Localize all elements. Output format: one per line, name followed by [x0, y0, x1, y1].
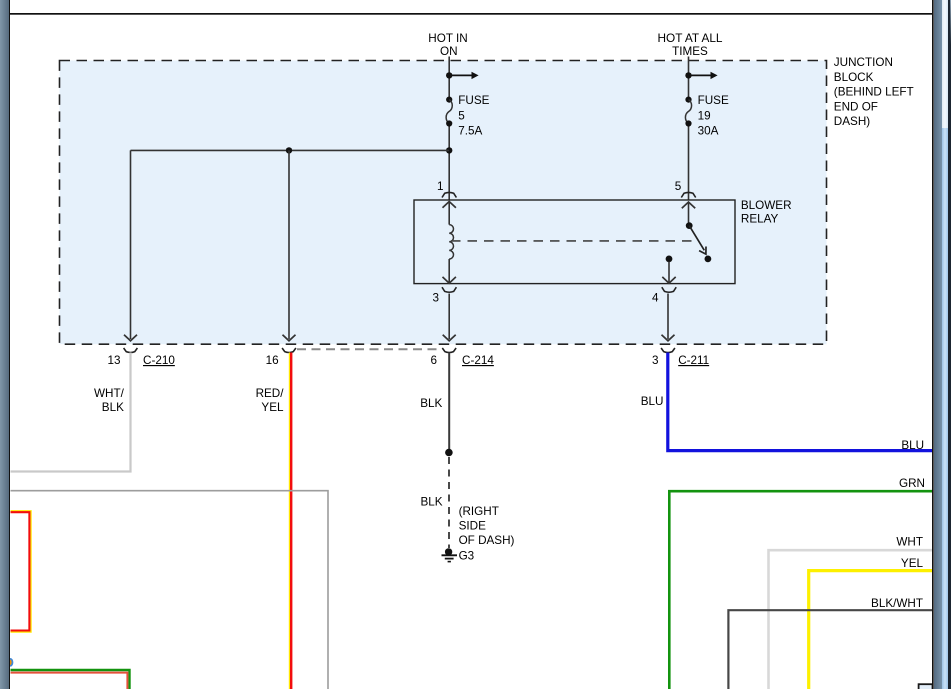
connector cap pin 5: [681, 192, 695, 197]
svg-text:FUSE: FUSE: [698, 94, 729, 107]
svg-text:BLK: BLK: [102, 401, 124, 414]
ground G3: [445, 548, 452, 555]
svg-text:3: 3: [652, 354, 659, 367]
svg-text:13: 13: [107, 354, 120, 367]
node: BLK junction dot: [445, 449, 453, 457]
junction block shaded area: [60, 61, 827, 345]
wire: RED/YEL loop at bottom left (red): [11, 512, 30, 630]
svg-text:WHT: WHT: [896, 535, 923, 548]
left window bar: [0, 0, 9, 689]
window frame: left black line: [9, 0, 11, 689]
connector 16 cup: [282, 348, 296, 353]
component box (gray, partially visible): [11, 491, 329, 689]
svg-text:RELAY: RELAY: [741, 213, 779, 226]
wire: RED bottom left: [11, 673, 128, 689]
svg-text:6: 6: [430, 354, 437, 367]
svg-text:(BEHIND LEFT: (BEHIND LEFT: [834, 86, 914, 99]
svg-text:4: 4: [652, 292, 659, 305]
wire: BLK dashed to ground: [448, 457, 450, 548]
svg-text:16: 16: [266, 354, 279, 367]
connector cap pin 1: [442, 192, 456, 197]
svg-text:YEL: YEL: [901, 557, 924, 570]
wire: BLU: [668, 353, 933, 451]
connector C-214 cup: [442, 348, 456, 353]
right dark edge top light patch: [950, 0, 951, 45]
svg-text:BLK: BLK: [420, 397, 442, 410]
svg-text:GRN: GRN: [899, 477, 925, 490]
svg-text:C-211: C-211: [678, 354, 709, 367]
gray dashed segment between connector 16 and 6: [297, 348, 440, 350]
wire: GRN bottom left: [11, 670, 130, 689]
blower relay box: [414, 200, 735, 284]
component box bottom right corner: [919, 684, 933, 689]
node: junction dot at (289,150): [286, 147, 292, 153]
svg-text:3: 3: [432, 292, 439, 305]
svg-text:HOT IN: HOT IN: [428, 32, 467, 45]
svg-text:5: 5: [675, 180, 682, 193]
svg-text:BLK/WHT: BLK/WHT: [871, 597, 923, 610]
wire: branch to connector 13: [130, 150, 132, 339]
connector C-210 cup: [124, 348, 138, 353]
wire: pin3 to junction bottom: [448, 294, 450, 340]
connector C-211 cup: [661, 348, 675, 353]
connector cup pin 3: [442, 287, 456, 292]
svg-text:FUSE: FUSE: [458, 94, 489, 107]
svg-text:1: 1: [437, 180, 444, 193]
right window bar: [934, 0, 942, 689]
wire: horizontal distribution wire y=150: [131, 149, 450, 151]
window frame: inner top black line: [10, 13, 933, 15]
relay switch common (pin5 side): [688, 202, 690, 223]
svg-text:BLOCK: BLOCK: [834, 71, 874, 84]
wire: RED/YEL red: [290, 353, 292, 689]
wire: BLK solid: [448, 353, 450, 451]
wire: pin4 down inside relay: [668, 262, 670, 284]
relay switch arm: [689, 226, 704, 251]
fuse F19 symbol: [685, 97, 691, 103]
wire: RED/YEL loop at bottom left (yellow tracer): [11, 511, 32, 632]
svg-text:YEL: YEL: [261, 401, 284, 414]
wire: arrow right from fuse5 top: [449, 74, 472, 76]
svg-text:JUNCTION: JUNCTION: [834, 56, 893, 69]
svg-text:WHT/: WHT/: [94, 387, 125, 400]
svg-text:OF DASH): OF DASH): [459, 534, 515, 547]
svg-text:ON: ON: [440, 45, 458, 58]
dashed mechanical link: [451, 240, 695, 242]
svg-text:RED/: RED/: [256, 387, 285, 400]
wire: YEL: [809, 571, 933, 689]
connector cup pin 4: [662, 287, 676, 292]
relay coil K1: [448, 202, 450, 225]
svg-text:BLU: BLU: [901, 439, 924, 452]
svg-text:BLOWER: BLOWER: [741, 199, 792, 212]
wire: WHT: [769, 550, 933, 689]
wire: pin4 to junction bottom: [667, 294, 669, 340]
svg-text:C-210: C-210: [143, 354, 175, 367]
grommet symbol at left edge: [8, 659, 12, 666]
relay contact dot (open): [705, 256, 712, 263]
fuse F5 symbol: [446, 97, 452, 103]
right light strip upper white part: [942, 0, 948, 128]
svg-text:G3: G3: [459, 550, 475, 563]
right light strip: [942, 0, 948, 689]
svg-text:BLK: BLK: [421, 496, 443, 509]
svg-text:HOT AT ALL: HOT AT ALL: [658, 32, 723, 45]
node: fuse5 top junction dot: [446, 72, 452, 78]
node: fuse19 top junction dot: [685, 72, 691, 78]
wire: branch to connector 16: [288, 150, 290, 339]
svg-text:TIMES: TIMES: [672, 45, 708, 58]
wire: arrow right from fuse19 top: [689, 74, 712, 76]
relay contact dot pin4: [666, 256, 673, 263]
wire: WHT/BLK: [11, 353, 131, 472]
svg-text:SIDE: SIDE: [459, 520, 486, 533]
svg-text:5: 5: [458, 109, 465, 122]
svg-text:END OF: END OF: [834, 100, 878, 113]
svg-text:30A: 30A: [698, 124, 719, 137]
wire: BLK/WHT: [728, 610, 932, 689]
wire: fuse19 branch vertical: [688, 57, 690, 201]
svg-text:7.5A: 7.5A: [458, 124, 482, 137]
svg-text:19: 19: [698, 109, 711, 122]
wire: RED/YEL yellow tracer: [288, 353, 290, 689]
window frame: right black line: [932, 0, 934, 689]
wire: fuse5 branch vertical: [448, 57, 450, 201]
node: junction dot at (449,150): [446, 147, 452, 153]
svg-text:DASH): DASH): [834, 115, 870, 128]
svg-text:(RIGHT: (RIGHT: [459, 505, 499, 518]
wire: GRN: [669, 491, 932, 689]
svg-text:BLU: BLU: [641, 395, 664, 408]
right dark edge: [948, 0, 951, 689]
svg-text:C-214: C-214: [462, 354, 494, 367]
